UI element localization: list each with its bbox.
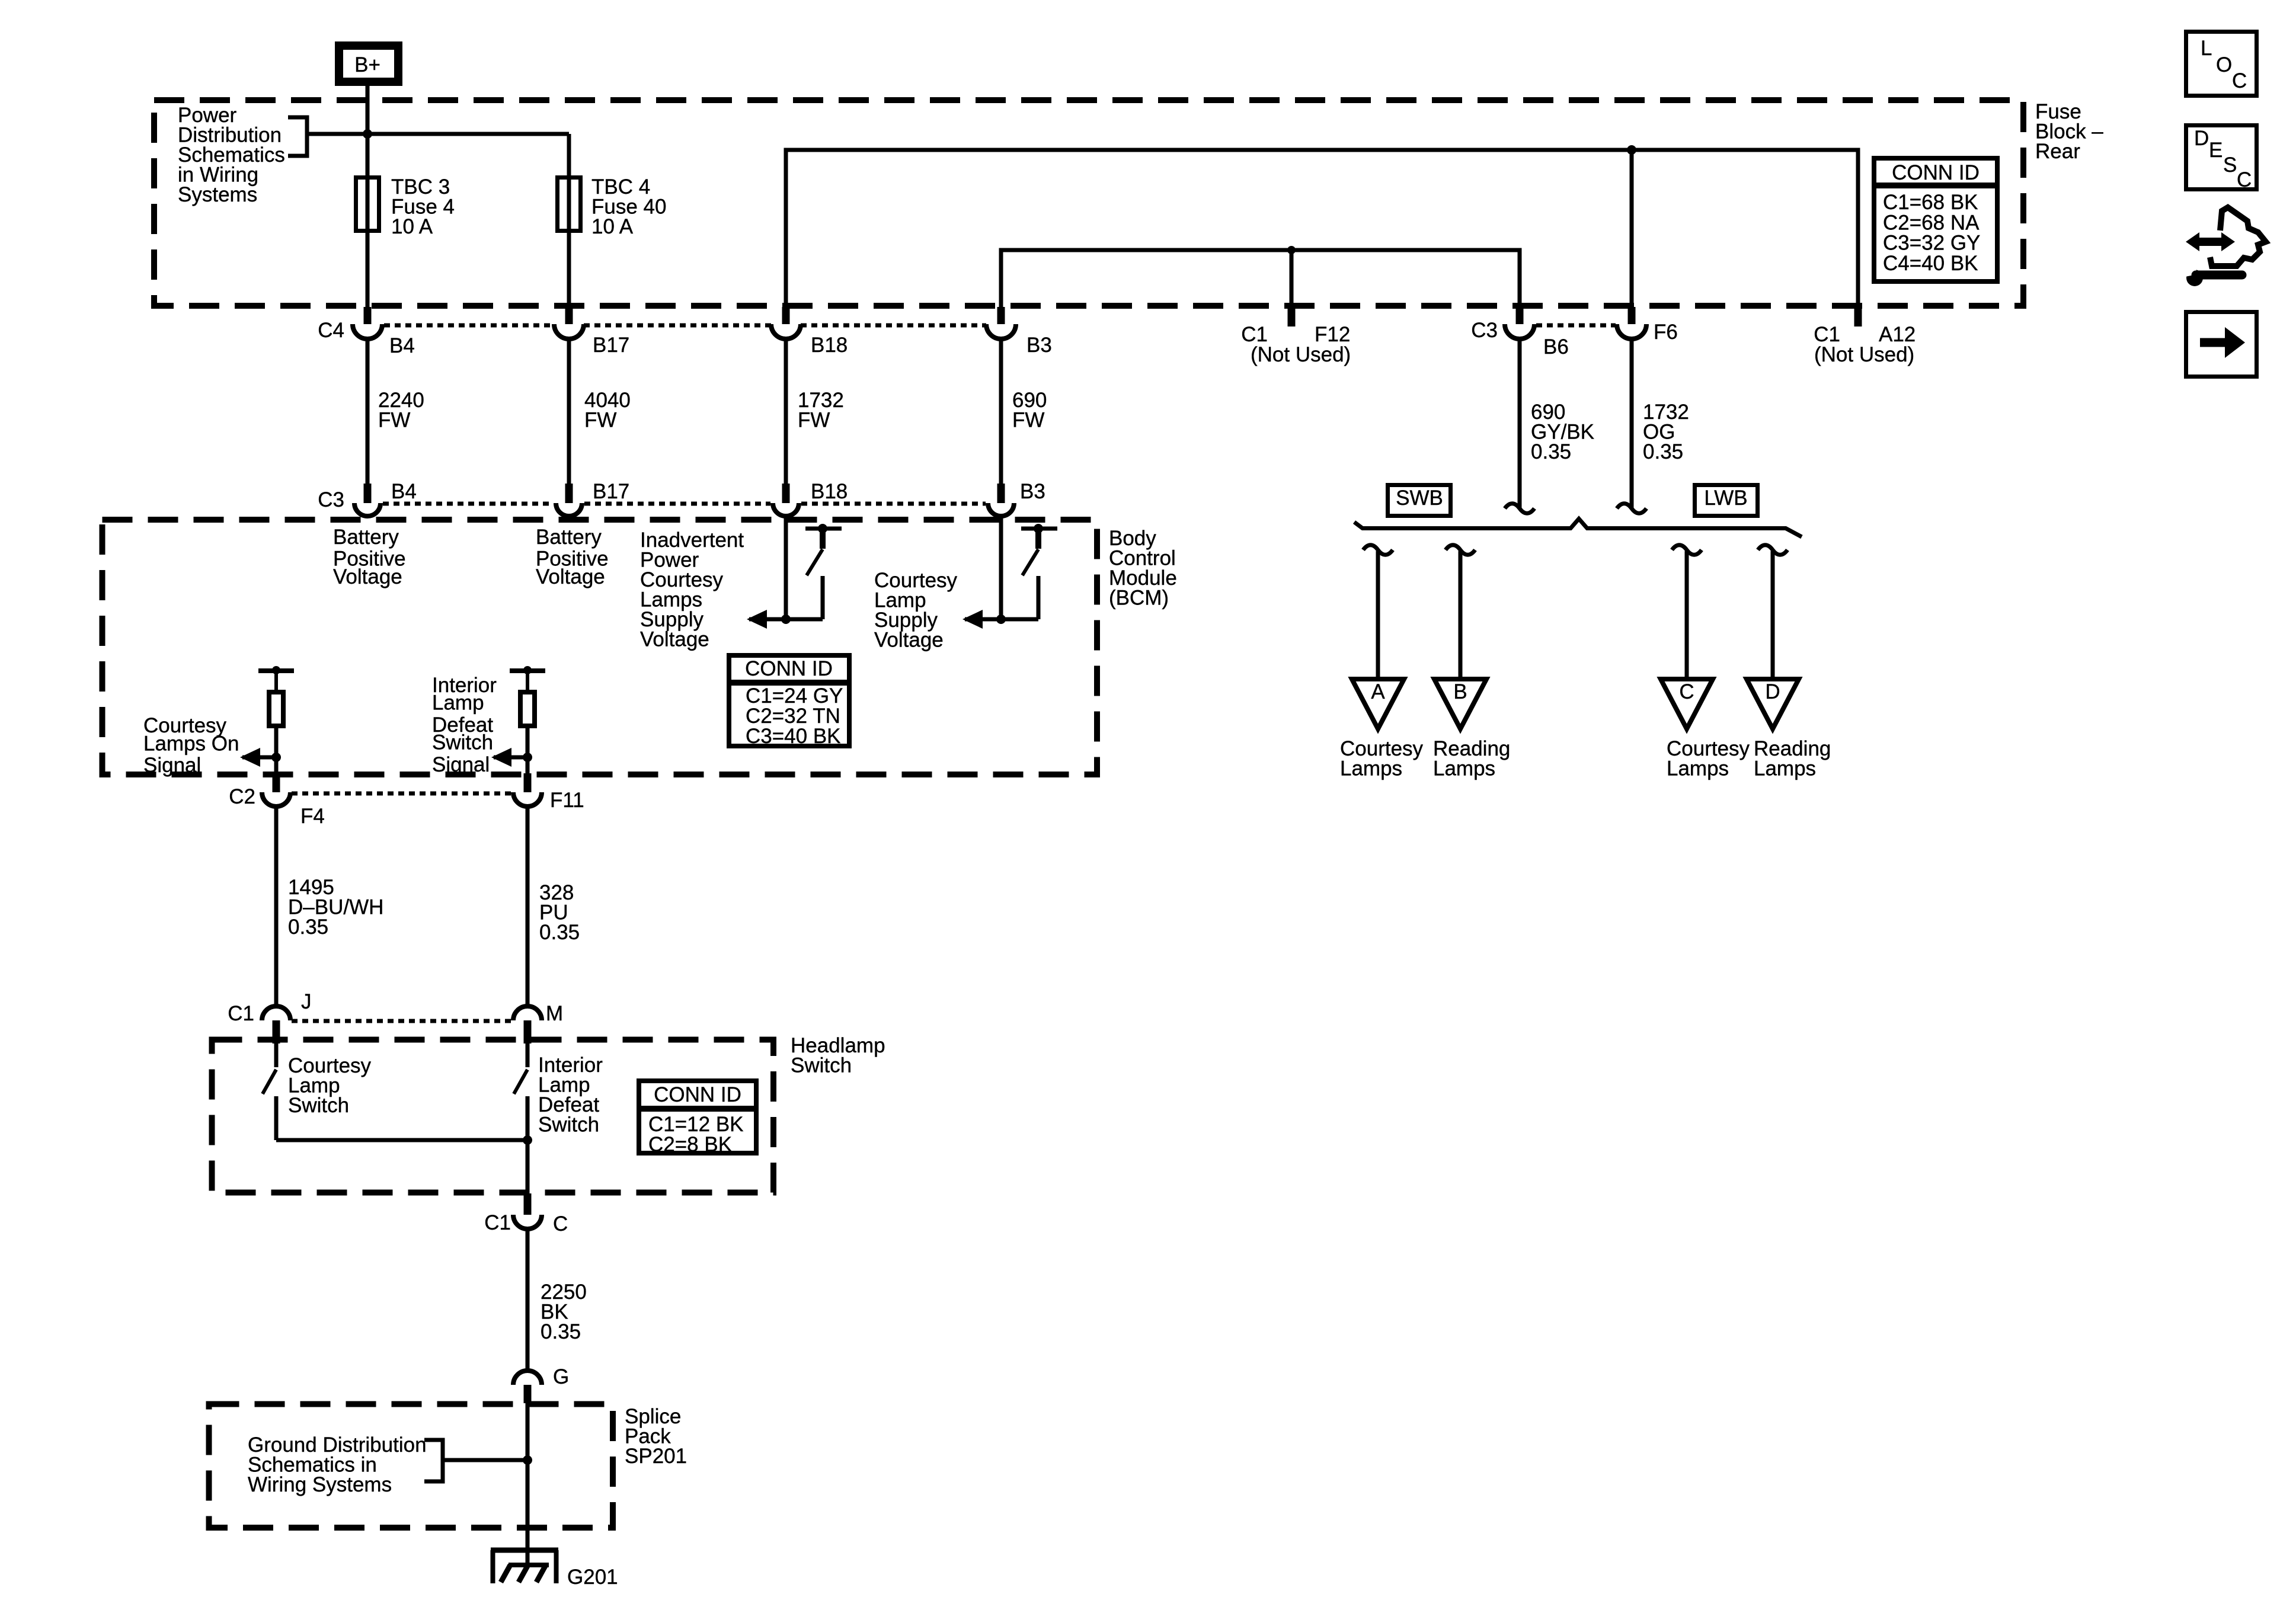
svg-text:D: D xyxy=(1765,680,1780,703)
svg-text:Signal: Signal xyxy=(143,754,201,777)
svg-text:Wiring Systems: Wiring Systems xyxy=(248,1473,392,1496)
svg-text:C1: C1 xyxy=(228,1002,254,1025)
svg-text:Lamps On: Lamps On xyxy=(143,732,239,756)
in-line splice squiggle 690 GY/BK xyxy=(1505,504,1534,514)
svg-text:Switch: Switch xyxy=(432,731,493,754)
svg-text:Systems: Systems xyxy=(178,183,257,206)
lamp arrow triangle B xyxy=(1434,679,1486,729)
svg-text:FW: FW xyxy=(378,409,410,432)
svg-text:FW: FW xyxy=(798,409,830,432)
BCM switch blade (B3) xyxy=(1022,549,1038,575)
connector F6 receptacle arc xyxy=(1617,324,1646,339)
connector C4/B4 pin tick xyxy=(364,307,372,324)
arrowhead courtesy lamps on signal xyxy=(240,748,260,767)
harness brace SWB/LWB xyxy=(1354,519,1802,537)
connector C4/B4 receptacle arc xyxy=(353,324,382,339)
resistor lower wire (courtesy lamps on) xyxy=(274,728,279,773)
courtesy lamp switch lower contact xyxy=(274,1096,279,1140)
svg-text:B+: B+ xyxy=(354,53,380,76)
reference bracket for ground distribution note xyxy=(424,1440,443,1481)
svg-text:FW: FW xyxy=(1012,409,1044,432)
svg-text:10 A: 10 A xyxy=(591,215,634,238)
in-line splice squiggle 1732 OG xyxy=(1617,504,1646,514)
connector C1/C pin tick xyxy=(524,1193,532,1215)
connector B17 receptacle arc xyxy=(554,324,584,339)
wire bracket to splice xyxy=(443,1458,527,1462)
connector C3/B6 receptacle arc xyxy=(1505,324,1534,339)
svg-text:S: S xyxy=(2223,153,2237,177)
svg-text:B: B xyxy=(1453,680,1467,703)
arrowhead courtesy lamp supply xyxy=(962,610,983,629)
svg-text:Voltage: Voltage xyxy=(333,565,402,588)
ground G201 symbol top bar xyxy=(491,1548,558,1553)
arrowhead defeat switch signal xyxy=(491,748,511,767)
ground G201 hatch bar xyxy=(509,1563,549,1567)
svg-text:B3: B3 xyxy=(1020,480,1045,503)
svg-text:CONN ID: CONN ID xyxy=(654,1083,741,1106)
junction dot B3 switch xyxy=(996,614,1006,624)
service icon double arrow xyxy=(2197,238,2224,246)
forward arrow xyxy=(2200,338,2225,347)
lamp B wire squiggle xyxy=(1446,545,1475,555)
svg-text:C3=40 BK: C3=40 BK xyxy=(746,725,841,748)
CONN ID table fuse block xyxy=(1874,158,1997,281)
BCM switch contact bar (B3) xyxy=(1021,527,1057,531)
svg-text:0.35: 0.35 xyxy=(541,1320,581,1343)
svg-text:0.35: 0.35 xyxy=(539,921,580,944)
svg-text:Voltage: Voltage xyxy=(874,629,944,652)
junction dot splice xyxy=(523,1455,532,1465)
BCM switch stub (B3) xyxy=(1035,529,1041,549)
svg-text:LWB: LWB xyxy=(1704,486,1747,510)
svg-text:B17: B17 xyxy=(593,480,629,503)
svg-text:F4: F4 xyxy=(300,805,325,828)
svg-text:Switch: Switch xyxy=(288,1094,349,1117)
svg-text:Voltage: Voltage xyxy=(536,565,605,588)
resistor top junction dot (courtesy lamps on) xyxy=(272,666,280,674)
CONN ID table BCM xyxy=(729,655,849,746)
junction dot courtesy lamps on xyxy=(271,753,281,762)
connector C1/J plug arc xyxy=(262,1006,290,1020)
BCM connector C3/B4 pin tick xyxy=(364,484,372,503)
interior lamp defeat switch blade xyxy=(514,1070,527,1094)
svg-text:(Not Used): (Not Used) xyxy=(1251,343,1351,366)
wire stub F12 not used xyxy=(1290,250,1294,307)
svg-text:D: D xyxy=(2194,127,2209,150)
resistor top junction dot (defeat switch) xyxy=(523,666,532,674)
junction dot B18 switch xyxy=(781,614,791,624)
BCM switch contact bar (B18) xyxy=(805,527,842,531)
wire B3 into BCM switch xyxy=(999,516,1003,619)
svg-text:Lamps: Lamps xyxy=(1340,757,1402,780)
wire 690 GY/BK drop xyxy=(1518,339,1522,508)
svg-text:C1: C1 xyxy=(484,1211,511,1234)
svg-text:Lamps: Lamps xyxy=(1433,757,1495,780)
fuse TBC3 Fuse 4 10 A xyxy=(356,178,379,231)
svg-text:Battery: Battery xyxy=(536,526,602,549)
BCM connector B18 receptacle arc xyxy=(773,503,799,516)
connector B18 pin tick xyxy=(782,307,790,324)
resistor element (courtesy lamps on) xyxy=(274,673,278,690)
connector dotted body line B6 to F6 xyxy=(1536,324,1616,328)
SWB option box xyxy=(1388,485,1451,516)
connector B17 pin tick xyxy=(565,307,573,324)
svg-text:(BCM): (BCM) xyxy=(1109,587,1169,610)
service icon outline xyxy=(2210,207,2266,266)
BCM switch pivot dot (B3) xyxy=(1034,524,1043,533)
wire 1495 D-BU/WH xyxy=(274,806,279,1006)
wire into defeat switch xyxy=(526,1044,530,1067)
connector F11 pin tick xyxy=(524,773,532,792)
svg-text:G: G xyxy=(553,1365,569,1388)
wire to courtesy lamp arrow xyxy=(965,617,1038,622)
fuse TBC4 Fuse 40 10 A xyxy=(558,178,581,231)
svg-text:C4: C4 xyxy=(318,319,344,342)
wire to courtesy lamps on signal arrow xyxy=(242,756,276,760)
BCM connector B17 receptacle arc xyxy=(556,503,582,516)
connector G plug arc xyxy=(513,1371,542,1385)
interior lamp defeat switch lower contact xyxy=(526,1096,530,1140)
svg-text:C: C xyxy=(2232,69,2247,92)
BCM connector C3/B4 receptacle arc xyxy=(354,503,380,516)
svg-text:B17: B17 xyxy=(593,334,629,357)
junction dot at B+ branch xyxy=(363,129,372,139)
wire 1732 OG drop xyxy=(1630,339,1634,508)
svg-text:Lamps: Lamps xyxy=(1667,757,1729,780)
wire down to C1 C xyxy=(526,1140,530,1193)
svg-text:Lamps: Lamps xyxy=(1754,757,1816,780)
Splice Pack SP201 dashed box xyxy=(209,1404,613,1528)
ground G201 hatches xyxy=(501,1565,546,1582)
svg-text:0.35: 0.35 xyxy=(1531,440,1571,463)
connector C1/C receptacle arc xyxy=(513,1215,542,1229)
BCM switch pivot dot (B18) xyxy=(818,524,827,533)
junction dot defeat switch signal xyxy=(523,753,532,762)
svg-text:B18: B18 xyxy=(811,480,848,503)
connector dotted body line row 1 xyxy=(384,324,986,328)
wire 4040 FW xyxy=(567,339,571,484)
LOC icon box xyxy=(2186,32,2257,96)
wire joining switches xyxy=(276,1138,527,1142)
wire to inadvertent power arrow xyxy=(749,617,823,622)
connector F11 receptacle arc xyxy=(513,792,542,806)
wire B18 into BCM switch xyxy=(784,516,788,619)
lamp D wire squiggle xyxy=(1758,545,1787,555)
wire to lamp D xyxy=(1771,551,1775,679)
connector B3 pin tick xyxy=(997,307,1005,324)
ground G201 left leg xyxy=(491,1550,495,1583)
CONN ID table headlamp switch xyxy=(639,1081,756,1153)
svg-text:C: C xyxy=(553,1212,568,1235)
svg-text:C2=8 BK: C2=8 BK xyxy=(648,1133,732,1156)
wire B3 feed across to C3 B6 xyxy=(1001,250,1520,307)
svg-text:SP201: SP201 xyxy=(625,1445,687,1468)
resistor element (defeat switch) xyxy=(526,673,529,690)
BCM switch lower contact (B18) xyxy=(821,576,825,619)
svg-text:C2: C2 xyxy=(229,785,255,808)
wire to lamp A xyxy=(1376,551,1380,679)
wire drop to F6 xyxy=(1630,150,1634,307)
svg-text:C2=68 NA: C2=68 NA xyxy=(1883,211,1980,234)
connector C3/B6 pin tick xyxy=(1516,307,1524,324)
wire 690 FW xyxy=(999,339,1003,484)
svg-text:A: A xyxy=(1371,680,1385,703)
svg-text:C: C xyxy=(2237,168,2252,191)
svg-text:Voltage: Voltage xyxy=(640,628,709,651)
lamp arrow triangle A xyxy=(1352,679,1404,729)
BCM connector B3 pin tick xyxy=(997,484,1005,503)
DESC icon box xyxy=(2186,126,2257,190)
svg-text:Lamp: Lamp xyxy=(432,692,484,715)
svg-text:B3: B3 xyxy=(1027,334,1052,357)
service icon wrench xyxy=(2186,270,2203,286)
svg-text:C3=32 GY: C3=32 GY xyxy=(1883,232,1980,255)
connector dotted body line C2 F11 xyxy=(292,792,512,796)
Body Control Module dashed box xyxy=(103,520,1098,774)
svg-text:B18: B18 xyxy=(811,334,848,357)
BCM switch blade (B18) xyxy=(807,549,823,575)
svg-text:Battery: Battery xyxy=(333,526,399,549)
svg-text:(Not Used): (Not Used) xyxy=(1814,343,1914,366)
svg-text:C: C xyxy=(1679,680,1694,703)
connector C1/J pin tick xyxy=(273,1020,280,1044)
BCM switch lower contact (B3) xyxy=(1037,576,1041,619)
svg-text:B4: B4 xyxy=(391,480,417,503)
BCM connector B3 receptacle arc xyxy=(988,503,1014,516)
connector B18 receptacle arc xyxy=(771,324,801,339)
svg-text:E: E xyxy=(2209,139,2223,162)
connector C2/F4 pin tick xyxy=(273,773,280,792)
svg-text:G201: G201 xyxy=(567,1566,618,1589)
reference bracket for power distribution note xyxy=(288,117,307,156)
BCM switch stub (B18) xyxy=(820,529,826,549)
courtesy lamp switch blade xyxy=(263,1070,276,1094)
wire 328 PU xyxy=(526,806,530,1006)
ground G201 right leg xyxy=(554,1550,559,1583)
lamp C wire squiggle xyxy=(1672,545,1702,555)
junction dot F12 tap xyxy=(1287,246,1296,254)
BCM connector B17 pin tick xyxy=(565,484,573,503)
svg-text:C3: C3 xyxy=(318,488,344,511)
wire branch to fuse TBC4 xyxy=(307,134,569,307)
forward arrow icon box xyxy=(2186,312,2257,377)
svg-text:Switch: Switch xyxy=(791,1054,852,1077)
wire to lamp C xyxy=(1685,551,1689,679)
lamp arrow triangle D xyxy=(1747,679,1799,729)
wire 1732 FW xyxy=(784,339,788,484)
svg-text:CONN ID: CONN ID xyxy=(1892,161,1980,184)
BCM connector B18 pin tick xyxy=(782,484,790,503)
svg-text:F6: F6 xyxy=(1654,321,1678,344)
wire into courtesy lamp switch xyxy=(274,1044,279,1067)
svg-text:C4=40 BK: C4=40 BK xyxy=(1883,252,1978,275)
connector C2/F4 receptacle arc xyxy=(262,792,290,806)
connector M pin tick xyxy=(524,1020,532,1044)
svg-text:Switch: Switch xyxy=(538,1113,599,1137)
svg-text:10 A: 10 A xyxy=(391,215,433,238)
svg-text:SWB: SWB xyxy=(1396,486,1443,510)
connector M plug arc xyxy=(513,1006,542,1020)
svg-text:Signal: Signal xyxy=(432,753,490,776)
wire B+ down to fuse TBC3 and connector C4 B4 xyxy=(366,86,370,307)
arrowhead inadvertent power supply xyxy=(747,610,767,629)
resistor lower wire (defeat switch) xyxy=(526,728,530,773)
fuse block Fuse Block-Rear dashed outline xyxy=(154,100,2023,306)
connector G pin tick xyxy=(524,1385,532,1403)
resistor top bar (defeat switch) xyxy=(510,668,545,673)
junction dot switches xyxy=(523,1135,532,1145)
svg-text:0.35: 0.35 xyxy=(288,916,328,939)
LWB option box xyxy=(1695,485,1758,516)
B+ battery positive terminal box xyxy=(339,46,398,82)
svg-text:CONN ID: CONN ID xyxy=(745,657,833,680)
lamp arrow triangle C xyxy=(1661,679,1713,729)
Headlamp Switch dashed box xyxy=(212,1040,774,1193)
wire to lamp B xyxy=(1459,551,1463,679)
connector F6 pin tick xyxy=(1628,307,1636,324)
pin tick A12 not used xyxy=(1854,307,1862,327)
svg-text:B6: B6 xyxy=(1543,335,1569,359)
resistor top bar (courtesy lamps on) xyxy=(258,668,294,673)
svg-text:F11: F11 xyxy=(550,789,584,812)
svg-text:J: J xyxy=(301,990,312,1013)
svg-text:L: L xyxy=(2201,37,2212,60)
svg-text:Rear: Rear xyxy=(2035,140,2080,163)
connector dotted body line C1 M xyxy=(292,1019,512,1023)
svg-text:C3: C3 xyxy=(1471,319,1498,342)
svg-text:O: O xyxy=(2216,53,2232,76)
wire 2250 BK xyxy=(526,1228,530,1371)
connector dotted body line row 2 xyxy=(383,502,986,506)
wire to defeat switch signal arrow xyxy=(494,756,527,760)
junction dot F6 tap xyxy=(1627,145,1636,155)
svg-text:B4: B4 xyxy=(389,334,415,357)
lamp A wire squiggle xyxy=(1363,545,1393,555)
connector B3 receptacle arc xyxy=(986,324,1016,339)
wire B18 feed across top to A12 xyxy=(786,150,1858,307)
svg-text:M: M xyxy=(546,1002,563,1025)
svg-text:FW: FW xyxy=(584,409,616,432)
svg-text:C1=68 BK: C1=68 BK xyxy=(1883,191,1978,214)
svg-text:0.35: 0.35 xyxy=(1643,440,1683,463)
wire through splice to ground xyxy=(526,1403,530,1564)
wire 2240 FW xyxy=(366,339,370,484)
